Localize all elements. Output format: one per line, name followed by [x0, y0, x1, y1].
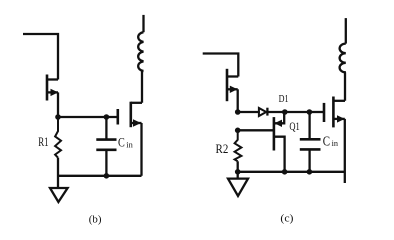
- svg-text:Q1: Q1: [289, 119, 299, 133]
- ground (circuit b): [50, 188, 68, 202]
- wire: T4 source through rail: [344, 119, 346, 183]
- wire: R2 to ground: [237, 161, 239, 178]
- wire: node B to Q1 gate: [238, 129, 273, 131]
- wire: circuit c bottom rail: [238, 171, 345, 173]
- svg-text:(b): (b): [89, 215, 102, 226]
- wire: circuit c top rail: [203, 54, 239, 77]
- wire: node to gate of T2: [58, 116, 117, 118]
- wire: node D to gate of T4: [309, 111, 323, 113]
- transistor T3 (JFET, circuit c): [227, 69, 238, 101]
- node A (diode input): [235, 109, 241, 115]
- inductor L2 (circuit c): [340, 18, 346, 72]
- label Cin (circuit c): [323, 134, 338, 149]
- svg-text:R1: R1: [38, 135, 48, 149]
- transistor Q1: [274, 112, 285, 172]
- node D (Cin-c top junction): [307, 109, 313, 115]
- wire: circuit b top rail: [23, 34, 58, 80]
- resistor R1: [55, 117, 61, 158]
- svg-text:in: in: [332, 139, 338, 148]
- transistor T1 (JFET, circuit b): [47, 75, 58, 101]
- wire: T2 drain to inductor: [142, 71, 144, 103]
- svg-text:D1: D1: [279, 93, 289, 105]
- wire: node A to diode: [238, 111, 260, 113]
- ground (circuit c): [228, 179, 248, 196]
- svg-text:(c): (c): [280, 214, 294, 225]
- wire: diode to node C: [267, 111, 284, 113]
- node: rail-R2 junction: [235, 169, 241, 175]
- transistor T2 (output MOSFET, circuit b): [118, 102, 142, 128]
- node: T1 source junction: [55, 114, 61, 120]
- wire: node C to node D: [285, 111, 310, 113]
- svg-text:C: C: [118, 136, 125, 150]
- diode D1: [259, 108, 268, 116]
- inductor L1 (circuit b): [138, 15, 143, 71]
- capacitor Cin (circuit c): [300, 112, 321, 172]
- node: Cin-c bottom junction: [307, 169, 313, 175]
- svg-text:R2: R2: [216, 142, 229, 156]
- wire: circuit b bottom rail: [58, 175, 142, 177]
- svg-text:C: C: [323, 134, 330, 149]
- capacitor Cin (circuit b): [96, 117, 116, 176]
- svg-text:in: in: [126, 140, 133, 149]
- label Cin (circuit b): [118, 136, 133, 150]
- node: Cin-b bottom junction: [104, 173, 110, 179]
- node B (R2 top junction): [235, 128, 241, 134]
- node: Q1 source rail junction: [282, 169, 288, 175]
- resistor R2: [235, 130, 242, 161]
- wire: T1 source to node: [57, 92, 59, 117]
- transistor T4 (output MOSFET, circuit c): [324, 97, 345, 128]
- wire: R1 to ground: [57, 158, 59, 188]
- wire: T3 source to node A: [237, 89, 239, 112]
- node: Cin-b top junction: [104, 114, 110, 120]
- wire: T2 source to bottom rail: [140, 123, 142, 176]
- node C (D1 cathode junction): [282, 109, 288, 115]
- wire: T4 drain to inductor: [344, 72, 347, 100]
